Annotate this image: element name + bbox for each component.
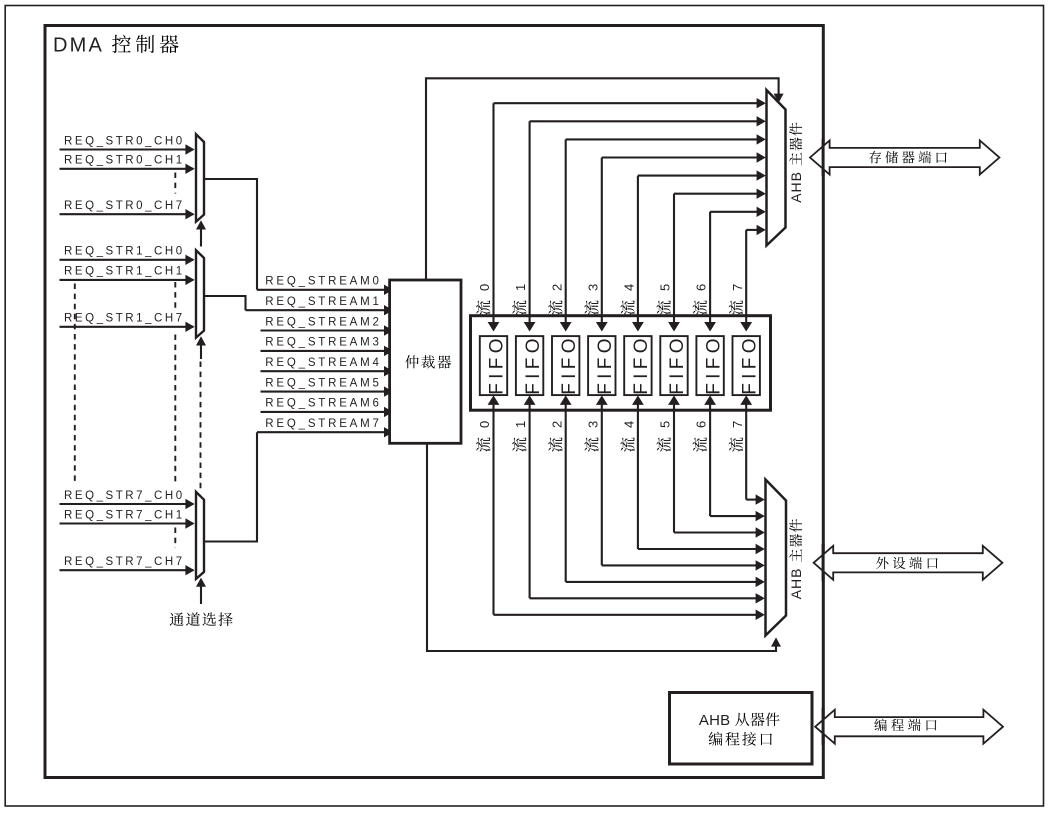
FIFO 3 box xyxy=(588,334,616,395)
channel select dashed line xyxy=(200,362,202,491)
channel mux STR0 xyxy=(196,134,204,221)
DMA border segment over port arrows xyxy=(822,139,825,745)
svg-text:REQ_STR1_CH7: REQ_STR1_CH7 xyxy=(64,313,185,325)
label stream 3 (bottom) xyxy=(584,421,600,452)
svg-text:REQ_STR0_CH7: REQ_STR0_CH7 xyxy=(64,200,185,212)
svg-text:3: 3 xyxy=(585,284,600,291)
FIFO 7 box xyxy=(733,334,761,395)
svg-text:0: 0 xyxy=(477,284,492,291)
label stream 3 (top) xyxy=(584,284,600,315)
svg-text:FIFO: FIFO xyxy=(487,334,508,395)
peripheral port double arrow xyxy=(814,546,1003,580)
svg-text:DMA: DMA xyxy=(53,35,104,57)
svg-text:REQ_STR7_CH1: REQ_STR7_CH1 xyxy=(64,509,185,521)
label stream 7 (top) xyxy=(729,284,745,315)
svg-text:REQ_STR7_CH0: REQ_STR7_CH0 xyxy=(64,490,185,502)
arbiter box xyxy=(390,280,461,443)
programming port double arrow xyxy=(815,710,1003,744)
svg-text:5: 5 xyxy=(658,421,673,428)
wire mux STR7 output to REQ_STREAM7 xyxy=(204,432,257,541)
svg-text:REQ_STR0_CH0: REQ_STR0_CH0 xyxy=(64,135,185,147)
label: channel selection xyxy=(170,612,233,626)
label stream 2 (top) xyxy=(548,284,564,315)
request lines REQ_STR0_CHx xyxy=(60,135,195,219)
svg-text:REQ_STREAM2: REQ_STREAM2 xyxy=(265,316,381,328)
stream lines FIFO bottoms to AHB master 2 xyxy=(488,395,765,620)
svg-text:FIFO: FIFO xyxy=(667,334,688,395)
wire arbiter to AHB master 2 (bottom) xyxy=(427,445,781,652)
channel select arrow into mux STR0 xyxy=(196,220,206,246)
label peripheral port xyxy=(876,557,938,569)
svg-text:FIFO: FIFO xyxy=(595,334,616,395)
label AHB master 1 xyxy=(788,123,804,203)
svg-text:REQ_STR1_CH1: REQ_STR1_CH1 xyxy=(64,266,185,278)
wire mux STR0 output to REQ_STREAM0 xyxy=(204,179,257,290)
svg-text:6: 6 xyxy=(694,284,709,291)
label: arbiter xyxy=(405,355,451,368)
svg-text:REQ_STR0_CH1: REQ_STR0_CH1 xyxy=(64,155,185,167)
svg-text:AHB: AHB xyxy=(699,712,730,729)
ellipsis dashed line left (groups 2..6) xyxy=(74,284,76,484)
label stream 4 (top) xyxy=(620,284,636,315)
channel select arrow into mux STR1 xyxy=(196,336,206,359)
svg-text:1: 1 xyxy=(513,421,528,428)
FIFO 6 box xyxy=(696,334,724,395)
label programming port xyxy=(874,719,936,732)
label stream 5 (bottom) xyxy=(656,421,672,452)
ellipsis dashed lines middle (channels 2..6) xyxy=(174,173,176,549)
label stream 6 (top) xyxy=(693,284,709,315)
memory port double arrow xyxy=(810,141,999,175)
stream lines FIFO tops to AHB master 1 xyxy=(488,98,766,332)
label stream 2 (bottom) xyxy=(548,421,564,452)
FIFO 1 box xyxy=(516,334,544,395)
svg-text:REQ_STR7_CH7: REQ_STR7_CH7 xyxy=(64,556,185,568)
svg-text:REQ_STREAM4: REQ_STREAM4 xyxy=(265,357,381,369)
FIFO 2 box xyxy=(552,334,580,395)
svg-text:0: 0 xyxy=(477,421,492,428)
svg-text:FIFO: FIFO xyxy=(559,334,580,395)
label AHB master 2 xyxy=(788,519,804,599)
wire mux STR1 output to REQ_STREAM1 xyxy=(204,296,246,310)
svg-text:2: 2 xyxy=(549,421,564,428)
wire arbiter to AHB master 1 (top) xyxy=(426,78,784,279)
label stream 7 (bottom) xyxy=(729,421,745,452)
label stream 0 (top) xyxy=(476,284,492,315)
svg-text:AHB: AHB xyxy=(788,568,804,600)
label memory port xyxy=(869,151,947,163)
svg-text:REQ_STR1_CH0: REQ_STR1_CH0 xyxy=(64,246,185,258)
title: DMA controller xyxy=(53,35,179,57)
AHB master 2 mux (peripheral port) xyxy=(766,480,787,636)
AHB master 1 mux (memory port) xyxy=(767,90,786,246)
svg-text:REQ_STREAM1: REQ_STREAM1 xyxy=(265,296,381,308)
channel select arrow into mux STR7 xyxy=(196,578,206,604)
channel mux STR7 xyxy=(196,492,204,579)
svg-text:REQ_STREAM5: REQ_STREAM5 xyxy=(265,377,381,389)
AHB slave programming interface box xyxy=(670,693,813,765)
label AHB slave xyxy=(699,712,780,729)
svg-text:7: 7 xyxy=(730,284,745,291)
FIFO 0 box xyxy=(480,334,508,395)
svg-text:4: 4 xyxy=(622,421,637,428)
svg-text:FIFO: FIFO xyxy=(703,334,724,395)
FIFO container box xyxy=(471,316,771,411)
svg-text:REQ_STREAM7: REQ_STREAM7 xyxy=(265,418,381,430)
svg-text:7: 7 xyxy=(730,421,745,428)
FIFO 4 box xyxy=(624,334,652,395)
REQ_STREAM0-7 request lines into arbiter xyxy=(246,276,394,438)
request lines REQ_STR7_CHx xyxy=(60,490,195,576)
label stream 1 (bottom) xyxy=(512,421,528,452)
svg-text:AHB: AHB xyxy=(788,171,804,203)
svg-text:5: 5 xyxy=(658,284,673,291)
svg-text:1: 1 xyxy=(513,284,528,291)
DMA controller block border xyxy=(45,26,823,778)
FIFO 5 box xyxy=(660,334,688,395)
svg-text:4: 4 xyxy=(622,284,637,291)
svg-text:3: 3 xyxy=(585,421,600,428)
label programming interface xyxy=(709,732,772,746)
label stream 4 (bottom) xyxy=(620,421,636,452)
svg-text:6: 6 xyxy=(694,421,709,428)
label stream 6 (bottom) xyxy=(693,421,709,452)
request lines REQ_STR1_CHx xyxy=(60,246,195,332)
label stream 0 (bottom) xyxy=(476,421,492,452)
svg-text:FIFO: FIFO xyxy=(631,334,652,395)
svg-text:FIFO: FIFO xyxy=(739,334,760,395)
svg-text:2: 2 xyxy=(549,284,564,291)
svg-text:REQ_STREAM0: REQ_STREAM0 xyxy=(265,276,381,288)
svg-text:REQ_STREAM6: REQ_STREAM6 xyxy=(265,398,381,410)
label stream 5 (top) xyxy=(656,284,672,315)
svg-text:REQ_STREAM3: REQ_STREAM3 xyxy=(265,337,381,349)
channel mux STR1 xyxy=(196,250,204,337)
label stream 1 (top) xyxy=(512,284,528,315)
svg-text:FIFO: FIFO xyxy=(523,334,544,395)
